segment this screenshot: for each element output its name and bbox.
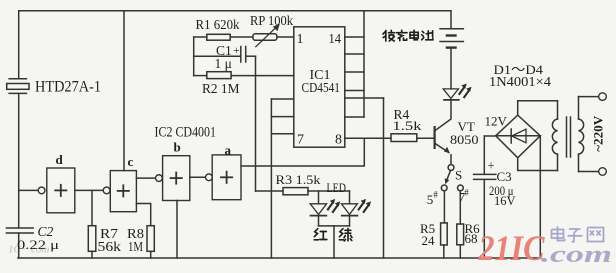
- svg-text:56k: 56k: [98, 239, 122, 254]
- svg-text:b: b: [174, 140, 181, 155]
- svg-text:CD4541: CD4541: [302, 80, 341, 95]
- svg-text:1.5k: 1.5k: [393, 118, 423, 133]
- svg-text:#: #: [433, 189, 438, 199]
- svg-text:HTD27A-1: HTD27A-1: [35, 79, 101, 96]
- svg-text:R3 1.5k: R3 1.5k: [276, 172, 322, 187]
- svg-text:.com: .com: [541, 241, 612, 268]
- svg-text:5: 5: [427, 192, 434, 207]
- svg-text:1N4001×4: 1N4001×4: [489, 74, 551, 89]
- svg-text:IC2 CD4001: IC2 CD4001: [155, 125, 217, 141]
- svg-text:8050: 8050: [450, 132, 479, 147]
- svg-text:21IC: 21IC: [478, 228, 546, 268]
- svg-text:+: +: [488, 159, 495, 173]
- svg-text:S: S: [455, 168, 462, 183]
- svg-text:68: 68: [465, 231, 478, 246]
- svg-text:1: 1: [297, 32, 304, 47]
- svg-text:~220V: ~220V: [591, 115, 606, 152]
- svg-text:8: 8: [335, 133, 342, 148]
- svg-text:c: c: [128, 154, 134, 169]
- svg-text:RP 100k: RP 100k: [250, 13, 293, 28]
- svg-text:a: a: [225, 143, 232, 158]
- svg-text:14: 14: [329, 32, 342, 47]
- svg-text:R1 620k: R1 620k: [196, 17, 240, 32]
- svg-text:1 μ: 1 μ: [215, 56, 232, 71]
- svg-text:1M: 1M: [128, 239, 143, 254]
- svg-text:1C− com: 1C− com: [8, 244, 49, 256]
- svg-text:24: 24: [422, 233, 436, 248]
- svg-text:+: +: [233, 43, 240, 57]
- svg-text:C3: C3: [497, 169, 512, 184]
- svg-text:LED: LED: [327, 181, 347, 195]
- svg-text:d: d: [56, 152, 64, 167]
- svg-text:C2: C2: [38, 224, 54, 239]
- svg-text:12V: 12V: [485, 114, 508, 129]
- svg-text:R2 1M: R2 1M: [202, 82, 240, 97]
- svg-text:#: #: [464, 187, 469, 197]
- svg-text:16V: 16V: [494, 194, 516, 208]
- svg-text:7: 7: [297, 133, 304, 148]
